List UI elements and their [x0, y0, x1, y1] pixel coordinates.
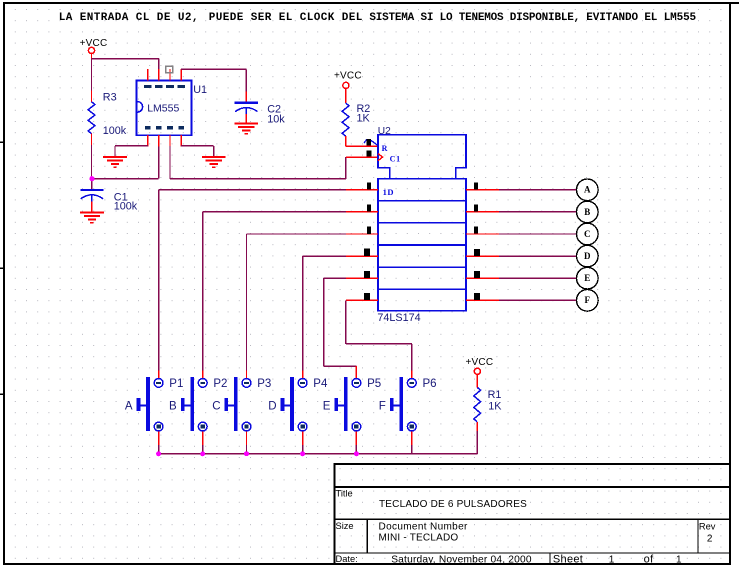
wire R2 to U2 R pin: [346, 136, 379, 146]
pin number blob (U2 input 5): [364, 271, 370, 278]
wire U2 output 1 to port A: [499, 189, 577, 191]
U1 bottom pin stubs: [148, 135, 181, 147]
svg-text:10k: 10k: [267, 113, 285, 125]
svg-text:1K: 1K: [488, 400, 502, 412]
wire U2 output 3 to port C: [499, 233, 577, 235]
pin number blob (U2 output 5): [474, 271, 480, 278]
wire junction to U1 pin 2 column: [92, 146, 159, 178]
port D: [577, 245, 599, 267]
svg-text:MINI - TECLADO: MINI - TECLADO: [379, 532, 459, 543]
pushbutton P6: [379, 377, 437, 431]
wire D1 input to P1: [159, 190, 346, 378]
U2 input pin stub row 3: [346, 233, 378, 235]
wire P6 bottom to bus: [411, 431, 413, 454]
svg-text:C: C: [584, 229, 591, 239]
svg-text:E: E: [584, 273, 590, 283]
capacitor C1: [91, 179, 93, 190]
wire bus to R1: [476, 422, 478, 454]
title block frame: [334, 464, 730, 564]
pushbutton P3: [212, 377, 271, 431]
pin number blob (U2 output 3): [474, 227, 478, 234]
pin number blob (U2 input 4): [364, 249, 370, 256]
pin number blob (U2 R pin): [364, 139, 379, 146]
port E: [577, 267, 599, 289]
wire U1 pin4 to ground: [181, 146, 214, 157]
svg-text:D: D: [268, 401, 276, 413]
junction dot (P5 bus): [354, 451, 359, 456]
ground (U1 right): [202, 157, 226, 167]
pushbutton P5: [323, 377, 381, 431]
power symbol +VCC (R1): [466, 357, 494, 375]
wire U1 clock out to U2 CL: [170, 146, 377, 179]
wire D6 input to P6: [346, 300, 412, 378]
svg-text:U2: U2: [378, 126, 391, 137]
svg-text:2: 2: [707, 534, 713, 545]
U2 input pin stub row 1: [346, 189, 378, 191]
U2 output pin stub row 4: [466, 255, 499, 257]
capacitor C2: [235, 103, 258, 114]
svg-text:P6: P6: [423, 378, 437, 390]
pin number blob (U2 input 2): [367, 204, 371, 211]
IC U2 74LS174 main body: [378, 179, 466, 311]
svg-text:R: R: [382, 144, 388, 153]
clock wedge C1 (U2): [378, 154, 383, 161]
wire U2 output 2 to port B: [499, 211, 577, 213]
svg-text:C: C: [212, 401, 220, 413]
svg-text:B: B: [584, 207, 590, 217]
svg-text:U1: U1: [193, 84, 207, 96]
junction dot (P3 bus): [244, 451, 249, 456]
U2 input pin stub row 2: [346, 211, 378, 213]
IC U1 LM555 body: [137, 81, 192, 136]
pin number blob (U2 output 4): [474, 249, 480, 256]
wire U1 to C2: [181, 69, 246, 102]
wire VCC to R2: [345, 89, 347, 104]
bottom bus wire: [159, 453, 478, 455]
resistor R3: [88, 102, 95, 134]
wire D2 input to P2: [203, 212, 346, 378]
wire U1 pin1 to ground: [115, 146, 148, 157]
wire P4 bottom to bus: [302, 431, 304, 454]
junction dot (P4 bus): [300, 451, 305, 456]
U2 input pin stub row 6: [346, 299, 378, 301]
U2 input pin stub row 5: [346, 277, 378, 279]
wire R1 to VCC: [476, 374, 478, 387]
wire D3 input to P3: [247, 234, 346, 378]
IC U2 74LS174 top section: [378, 135, 466, 179]
wire R3 bottom to junction: [91, 134, 93, 179]
svg-text:P2: P2: [213, 378, 227, 390]
port F: [577, 290, 599, 312]
no-connect square on U1 pin: [166, 66, 173, 72]
svg-text:F: F: [379, 401, 386, 413]
svg-text:E: E: [323, 401, 331, 413]
pin number blob (U2 input 6): [364, 293, 370, 300]
svg-text:1: 1: [676, 554, 682, 565]
wire P5 bottom to bus: [355, 431, 357, 454]
annotation text: [59, 12, 697, 24]
svg-text:A: A: [584, 185, 591, 195]
svg-text:Document Number: Document Number: [379, 522, 468, 533]
ground (C1): [80, 213, 104, 223]
svg-text:A: A: [125, 401, 133, 413]
U2 output pin stub row 6: [466, 299, 499, 301]
pin number blob (U2 input 3): [367, 227, 371, 234]
wire VCC to R3 and U1 pin: [92, 54, 159, 102]
U2 output pin stub row 1: [466, 189, 499, 191]
svg-text:74LS174: 74LS174: [377, 312, 420, 324]
pushbutton P2: [169, 377, 227, 431]
wire U2 output 6 to port F: [499, 299, 577, 301]
U2 output pin stub row 3: [466, 233, 499, 235]
U2 output pin stub row 2: [466, 211, 499, 213]
U2 input pin stub row 4: [346, 255, 378, 257]
svg-text:Date:: Date:: [336, 554, 358, 564]
svg-text:Sheet: Sheet: [553, 553, 583, 565]
wire P2 bottom to bus: [202, 431, 204, 454]
resistor R2: [342, 103, 349, 136]
svg-text:R1: R1: [488, 389, 502, 401]
power symbol +VCC (R2): [334, 70, 362, 88]
svg-text:Title: Title: [336, 489, 353, 499]
wire P1 bottom to bus: [158, 431, 160, 454]
power symbol +VCC (U1): [80, 38, 108, 54]
wire U2 output 5 to port E: [499, 277, 577, 279]
svg-text:+VCC: +VCC: [334, 70, 362, 81]
pin number blob (U2 output 2): [474, 205, 478, 212]
junction dot (P1 bus): [156, 451, 161, 456]
wire C1 to ground: [91, 201, 93, 212]
svg-text:TECLADO DE 6 PULSADORES: TECLADO DE 6 PULSADORES: [379, 499, 527, 510]
svg-text:Rev: Rev: [699, 521, 716, 531]
svg-text:R3: R3: [103, 92, 117, 104]
svg-text:P1: P1: [169, 378, 183, 390]
svg-text:B: B: [169, 401, 177, 413]
svg-text:C1: C1: [390, 154, 401, 163]
ground (C2): [234, 123, 258, 133]
svg-text:EVITANDO EL LM555: EVITANDO EL LM555: [586, 12, 696, 24]
ground (U1 left): [103, 157, 127, 167]
svg-text:1D: 1D: [383, 187, 394, 197]
svg-text:+VCC: +VCC: [466, 357, 494, 368]
svg-text:LM555: LM555: [147, 103, 179, 115]
svg-text:P4: P4: [313, 378, 328, 390]
wire C2 to ground: [245, 114, 247, 123]
U1 top pin stubs: [148, 69, 181, 81]
port C: [577, 223, 599, 245]
U2 output pin stub row 5: [466, 277, 499, 279]
svg-text:1K: 1K: [357, 113, 371, 125]
wire D5 input to P5: [324, 278, 357, 378]
svg-text:Saturday, November 04, 2000: Saturday, November 04, 2000: [391, 554, 532, 565]
svg-text:Size: Size: [336, 521, 354, 531]
svg-text:P3: P3: [257, 378, 271, 390]
pin number blob (U2 C1 pin): [367, 150, 372, 156]
resistor R1: [474, 387, 481, 422]
svg-text:F: F: [585, 295, 591, 305]
svg-text:of: of: [644, 553, 655, 565]
pushbutton P1: [125, 377, 183, 431]
wire D4 input to P4: [303, 256, 346, 378]
port B: [577, 201, 599, 223]
svg-text:LA ENTRADA CL DE U2,: LA ENTRADA CL DE U2,: [59, 12, 199, 24]
svg-text:SISTEMA SI LO TENEMOS DISPONIB: SISTEMA SI LO TENEMOS DISPONIBLE,: [369, 12, 580, 24]
svg-text:1: 1: [609, 554, 615, 565]
svg-text:100k: 100k: [114, 201, 138, 213]
wire U2 output 4 to port D: [499, 255, 577, 257]
junction dot (P2 bus): [200, 451, 205, 456]
pin number blob (U2 output 1): [474, 183, 478, 190]
pin number blob (U2 output 6): [474, 293, 480, 300]
svg-text:PUEDE SER EL CLOCK DEL: PUEDE SER EL CLOCK DEL: [209, 12, 363, 24]
svg-text:D: D: [584, 251, 591, 261]
svg-text:P5: P5: [367, 378, 381, 390]
svg-text:100k: 100k: [103, 125, 127, 137]
junction dot (R3/C1 node): [89, 176, 94, 181]
wire P3 bottom to bus: [246, 431, 248, 454]
port A: [577, 179, 599, 201]
pin number blob (U2 input 1): [367, 182, 371, 189]
pushbutton P4: [268, 377, 328, 431]
